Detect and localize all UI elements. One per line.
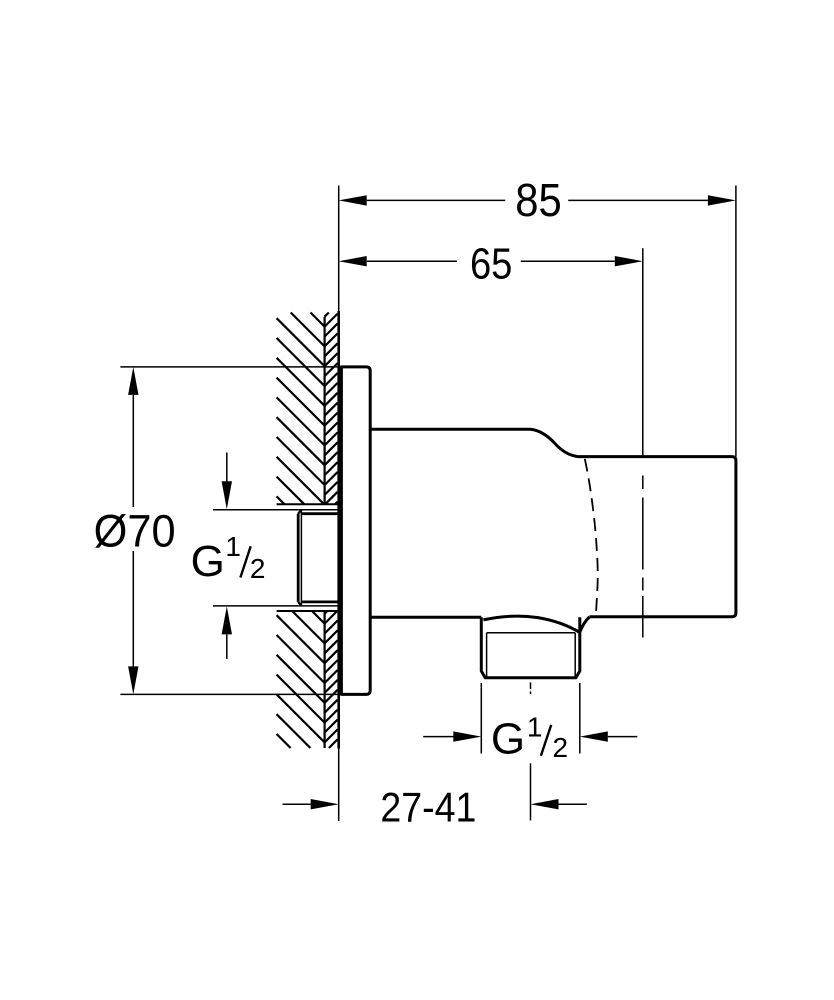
wall hole lower edge	[277, 610, 339, 612]
fillet outlet-to-body	[580, 617, 590, 633]
inlet chamfer bottom	[298, 602, 301, 606]
arrow 85 right	[708, 195, 736, 205]
arrow line 27-41 right	[559, 803, 587, 805]
arrow line inlet bottom	[226, 634, 228, 659]
leader line inlet top	[213, 509, 298, 511]
outlet thread root left	[486, 633, 488, 677]
inlet chamfer top	[298, 510, 301, 514]
holder centerline (dash-dot)	[642, 476, 644, 490]
arrow inlet bottom	[222, 606, 232, 634]
extension line D70 bottom	[120, 693, 341, 695]
extension line 85 right	[735, 186, 737, 457]
arrow line outlet right	[608, 736, 638, 738]
svg-text:27-41: 27-41	[380, 783, 476, 830]
arrow 27-41 left	[311, 799, 339, 809]
outlet thread crest outline	[481, 617, 580, 678]
svg-text:G: G	[491, 714, 525, 763]
extension line outlet right	[579, 683, 581, 754]
svg-text:65: 65	[470, 240, 513, 289]
extension line outlet left	[480, 683, 482, 754]
arrow inlet top	[222, 481, 232, 509]
inlet chamfer boundary	[300, 510, 302, 606]
leader line inlet bottom	[213, 605, 298, 607]
dimension line D70 lower	[132, 551, 134, 667]
svg-text:1: 1	[225, 531, 241, 562]
wall hole upper edge	[277, 503, 339, 505]
arrow line 27-41 left	[283, 803, 311, 805]
fraction slash (outlet)	[541, 725, 551, 756]
inlet thread root top	[301, 512, 338, 515]
wall hatch divider (upper)	[324, 317, 326, 505]
fraction slash (inlet)	[240, 546, 250, 577]
arrow 65 left	[339, 256, 367, 266]
arrow 85 left	[339, 195, 367, 205]
inlet thread crest top	[298, 509, 339, 511]
inlet end face	[297, 514, 300, 602]
arrow D70 bottom	[128, 666, 138, 694]
transition break line (dashed)	[585, 459, 598, 618]
svg-text:85: 85	[515, 174, 562, 226]
outlet thread root right	[574, 633, 576, 677]
dimension line D70 upper	[132, 395, 134, 507]
svg-text:2: 2	[553, 732, 569, 763]
wall hatch divider (lower)	[324, 611, 326, 748]
extension line, wall face (top)	[338, 186, 340, 312]
wall section hatching	[277, 313, 338, 749]
inlet thread crest bottom	[298, 605, 339, 607]
outlet centerline (dash-dot)	[530, 682, 532, 689]
dimension line 65 left	[367, 260, 457, 262]
arrow line outlet left	[423, 736, 453, 738]
arrow outlet left	[453, 731, 481, 741]
svg-text:1: 1	[527, 711, 543, 742]
svg-text:2: 2	[250, 553, 266, 584]
arrow outlet right	[580, 731, 608, 741]
dimension line 85 left	[367, 199, 506, 201]
wall face line	[337, 311, 340, 749]
arrow 27-41 right	[531, 799, 559, 809]
extension line, wall face (bottom)	[338, 749, 340, 822]
arrow D70 top	[128, 367, 138, 395]
dimension line 85 right	[568, 199, 708, 201]
arrow 65 right	[615, 256, 643, 266]
svg-text:Ø70: Ø70	[94, 505, 176, 556]
outlet shoulder contour	[483, 616, 579, 632]
inlet thread root bottom	[301, 601, 338, 604]
extension line 65	[642, 248, 644, 456]
escutcheon flange	[341, 367, 370, 695]
outlet thread start line	[487, 632, 576, 634]
dimension line 65 right	[521, 260, 615, 262]
body bottom edge (left)	[370, 616, 481, 619]
extension line D70 top	[120, 366, 341, 368]
body outline (top, right end)	[370, 429, 736, 617]
arrow line inlet top	[226, 453, 228, 483]
svg-text:G: G	[191, 537, 225, 586]
